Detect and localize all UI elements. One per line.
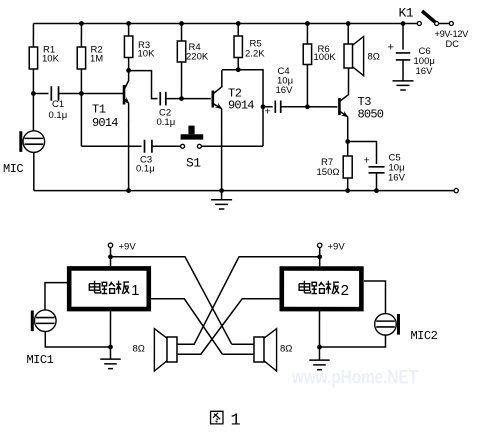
label C1 0.1u <box>49 99 68 121</box>
svg-text:16V: 16V <box>276 85 294 96</box>
svg-text:+9V: +9V <box>118 241 136 252</box>
wire C6 top lead <box>402 24 404 50</box>
wire speaker1 lower terminal to board2 output (crossover) <box>177 299 280 354</box>
node junction R5 top rail <box>236 21 241 26</box>
label board 1 text 电路板1 <box>89 281 139 299</box>
resistor R3 <box>124 23 132 69</box>
circuit board 2 box <box>282 269 362 310</box>
label R3 10K <box>138 40 156 60</box>
svg-text:10K: 10K <box>138 48 156 59</box>
ground symbol board 2 <box>309 347 330 370</box>
svg-text:1: 1 <box>230 411 240 430</box>
node junction R5 / T2 collector <box>236 67 241 72</box>
node junction R4/C2/T2 base <box>179 96 184 101</box>
microphone MIC <box>21 131 45 153</box>
label T2 9014 <box>228 86 254 112</box>
svg-text:9014: 9014 <box>92 116 118 130</box>
node junction R2 top rail <box>79 21 84 26</box>
wire T1 collector to C2 <box>129 71 158 99</box>
wire +9V into board 2 <box>319 248 321 267</box>
wire board1 output to speaker2 lower (crossover) <box>151 299 222 354</box>
wire board 2 bottom stem <box>318 311 320 347</box>
circuit board 1 box <box>69 268 149 309</box>
node junction T2 collector / C4 / S1 branch <box>261 104 266 109</box>
wire S1 to T2 collector node <box>202 145 263 147</box>
node junction +9V board 2 <box>317 254 322 259</box>
label C3 0.1u <box>136 154 155 174</box>
resistor R1 <box>29 23 37 91</box>
node junction R1/C1/MIC <box>31 91 36 96</box>
node junction C5 bottom rail <box>374 188 379 193</box>
wire T2 emitter to ground rail <box>221 109 223 191</box>
svg-text:+: + <box>364 154 370 166</box>
svg-text:8Ω: 8Ω <box>280 344 292 355</box>
wire MIC1 top lead <box>45 283 67 310</box>
svg-text:C1: C1 <box>52 99 64 110</box>
resistor R2 <box>77 23 85 91</box>
node junction T3 emitter / R7 / C5 <box>345 139 350 144</box>
svg-text:9014: 9014 <box>228 98 254 112</box>
svg-text:10K: 10K <box>42 53 60 64</box>
switch K1 <box>417 11 453 26</box>
ground symbol board 1 <box>100 347 121 369</box>
capacitor C5 electrolytic <box>369 167 385 191</box>
wire board1 +9V to speaker2 upper (crossover) <box>110 257 231 345</box>
transistor T1 9014 <box>123 71 132 106</box>
wire R2 node down to C3 <box>80 93 82 146</box>
label T3 8050 <box>358 95 384 122</box>
speaker 8ohm top circuit <box>344 24 364 76</box>
svg-text:220K: 220K <box>186 51 209 62</box>
speaker 1 8ohm <box>154 329 177 371</box>
node junction +9V board 1 <box>108 254 113 259</box>
capacitor C3 <box>81 140 180 153</box>
svg-text:MIC: MIC <box>3 162 23 176</box>
wire MIC top lead <box>32 93 34 130</box>
svg-text:K1: K1 <box>399 6 414 21</box>
caption 图 1 <box>211 411 241 430</box>
transistor T3 8050 <box>339 68 349 119</box>
node junction R3 / T1 collector <box>126 68 131 73</box>
node junction R4 top rail <box>179 21 184 26</box>
svg-text:2.2K: 2.2K <box>245 49 265 60</box>
svg-text:0.1μ: 0.1μ <box>157 117 176 128</box>
switch S1 push button <box>181 126 204 149</box>
node +9V terminal board 1 <box>108 243 112 247</box>
svg-text:150Ω: 150Ω <box>317 167 340 178</box>
node junction board2 ground <box>317 345 322 350</box>
label R7 150ohm <box>317 157 340 178</box>
speaker 2 8ohm <box>254 329 277 371</box>
resistor R4 <box>177 23 185 96</box>
node junction R3 top rail <box>126 21 131 26</box>
ground symbol below C6 <box>393 81 414 90</box>
wire board 1 bottom stem <box>109 311 111 347</box>
wire bottom ground rail <box>34 190 454 192</box>
capacitor C6 electrolytic <box>396 53 411 81</box>
microphone MIC2 <box>375 314 399 336</box>
wire +9V into board 1 <box>109 247 111 266</box>
node junction speaker top rail <box>346 21 351 26</box>
svg-text:2: 2 <box>341 282 349 299</box>
svg-text:MIC2: MIC2 <box>410 329 437 343</box>
svg-text:T1: T1 <box>92 102 106 116</box>
node junction K1/C6 top rail <box>401 21 406 26</box>
resistor R6 <box>303 24 311 106</box>
svg-text:8Ω: 8Ω <box>368 52 380 63</box>
wire top supply rail <box>33 22 417 24</box>
svg-text:+: + <box>388 42 394 54</box>
svg-text:+: + <box>265 106 271 118</box>
node junction R2/C1/T1 base <box>79 91 84 96</box>
label board 2 text 电路板2 <box>299 281 349 299</box>
svg-text:1: 1 <box>131 282 139 299</box>
capacitor C1 <box>33 86 81 101</box>
svg-text:16V: 16V <box>416 66 434 77</box>
svg-text:0.1μ: 0.1μ <box>136 163 155 174</box>
node bottom-rail negative supply terminal <box>454 189 458 193</box>
wire T3 emitter down <box>347 117 349 141</box>
label R1 10K <box>42 44 60 64</box>
wire T2 collector run <box>222 70 263 147</box>
label R5 2.2K <box>245 39 265 60</box>
transistor T2 9014 <box>213 70 224 111</box>
wire MIC bottom lead <box>33 152 35 190</box>
node junction T2 emitter / bottom rail <box>219 188 224 193</box>
resistor R7 <box>343 142 352 191</box>
microphone MIC1 <box>32 310 56 332</box>
label R6 100K <box>314 44 337 63</box>
svg-text:+9V-12V: +9V-12V <box>435 29 470 39</box>
svg-text:S1: S1 <box>186 155 201 170</box>
label C2 0.1u <box>157 107 176 128</box>
wire C5 branch <box>348 142 377 165</box>
wire T2 base <box>182 98 211 100</box>
node junction board1 ground <box>108 345 113 350</box>
node junction R7 bottom rail <box>345 188 350 193</box>
label +9V-12V DC <box>435 29 470 49</box>
capacitor C2 <box>160 92 181 106</box>
wire T1 emitter to ground rail <box>128 104 130 191</box>
svg-text:DC: DC <box>446 39 460 49</box>
wire MIC2 top lead <box>364 281 386 314</box>
node junction R6/C4/T3 base <box>305 104 310 109</box>
label C4 10u 16V <box>276 66 294 96</box>
label C5 10u 16V <box>388 153 406 184</box>
wire C4 input <box>263 106 273 108</box>
node +9V terminal board 2 <box>317 243 321 247</box>
svg-text:0.1μ: 0.1μ <box>49 110 68 121</box>
label C6 100u 16V <box>414 46 435 77</box>
wire T1 base <box>81 92 123 94</box>
svg-text:8Ω: 8Ω <box>132 343 144 354</box>
svg-text:16V: 16V <box>388 173 406 184</box>
wire speaker2 lower terminal stub <box>222 353 254 355</box>
capacitor C4 electrolytic <box>275 101 305 114</box>
wire speaker1 upper terminal to board2 +9V (crossover) <box>177 257 320 345</box>
svg-text:100K: 100K <box>314 52 337 63</box>
wire speaker2 upper terminal stub <box>232 343 254 345</box>
svg-text:MIC1: MIC1 <box>26 353 53 367</box>
wire MIC1 bottom to ground junction <box>45 332 110 347</box>
svg-text:www.pHome.NET: www.pHome.NET <box>291 368 418 389</box>
label R2 1M <box>90 44 103 64</box>
label T1 9014 <box>92 102 118 130</box>
wire T3 base <box>307 106 337 108</box>
svg-text:+9V: +9V <box>327 242 345 253</box>
svg-text:8050: 8050 <box>358 108 384 122</box>
resistor R5 <box>234 23 242 68</box>
svg-text:1M: 1M <box>90 53 103 64</box>
node junction T1 emitter / bottom rail <box>126 188 131 193</box>
label R4 220K <box>186 42 209 63</box>
ground symbol below bottom rail <box>211 191 232 209</box>
wire MIC2 bottom to ground junction <box>319 335 385 347</box>
node junction R6 top rail <box>305 21 310 26</box>
